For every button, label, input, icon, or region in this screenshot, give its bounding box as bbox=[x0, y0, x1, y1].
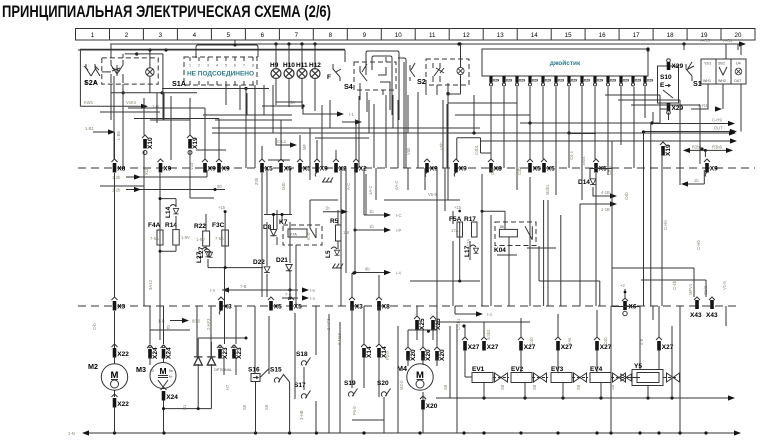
svg-text:S8: S8 bbox=[242, 404, 247, 410]
svg-text:9a: 9a bbox=[169, 369, 173, 373]
svg-text:1: 1 bbox=[189, 64, 191, 68]
lamp U4 (S2) bbox=[457, 67, 464, 74]
svg-text:S4: S4 bbox=[344, 82, 353, 91]
wire arrow y314 bbox=[455, 306, 493, 317]
svg-text:OPTIONAL: OPTIONAL bbox=[214, 368, 232, 372]
svg-text:WH2: WH2 bbox=[718, 79, 726, 83]
switch S2 bbox=[410, 59, 469, 86]
svg-text:X29: X29 bbox=[623, 79, 629, 83]
wire R5 top arrow bbox=[323, 206, 348, 215]
wire arrow 1-2b upper bbox=[112, 170, 207, 180]
svg-text:17: 17 bbox=[633, 32, 640, 39]
svg-text:R3b6: R3b6 bbox=[712, 144, 723, 149]
svg-text:X2: X2 bbox=[359, 166, 367, 173]
lower connector bus (dashed) y306 bbox=[78, 305, 738, 307]
switch S19 bbox=[344, 380, 358, 397]
connector X29 (S10 top) bbox=[667, 59, 684, 70]
resistor R22 bbox=[194, 223, 210, 246]
svg-text:7-5A: 7-5A bbox=[150, 236, 159, 241]
svg-text:C-H9: C-H9 bbox=[712, 118, 722, 123]
wire F5A junction bbox=[384, 192, 480, 283]
svg-text:I-4: I-4 bbox=[487, 312, 493, 317]
svg-text:2: 2 bbox=[198, 64, 200, 68]
svg-text:C4b1: C4b1 bbox=[474, 144, 479, 155]
svg-text:C4b: C4b bbox=[517, 167, 522, 175]
svg-text:X23: X23 bbox=[222, 347, 229, 359]
connector X2 bbox=[333, 159, 347, 173]
wire K04 route y281 bbox=[539, 281, 600, 306]
svg-text:7-17A: 7-17A bbox=[466, 239, 471, 250]
svg-text:7-B: 7-B bbox=[285, 292, 292, 297]
inductor L27 with diode bbox=[198, 246, 213, 258]
svg-text:S8: S8 bbox=[264, 404, 269, 410]
svg-text:MFV1: MFV1 bbox=[688, 283, 693, 295]
wire arrow y272.5 bbox=[354, 267, 402, 276]
svg-text:X29: X29 bbox=[519, 79, 525, 83]
svg-text:X3: X3 bbox=[117, 304, 125, 311]
connector X5 bbox=[268, 297, 282, 311]
svg-text:X22: X22 bbox=[117, 351, 129, 358]
svg-text:U4: U4 bbox=[736, 62, 741, 66]
wire S1 feeds bbox=[691, 44, 741, 112]
svg-text:X5: X5 bbox=[284, 166, 292, 173]
svg-text:1A6: 1A6 bbox=[567, 337, 572, 345]
svg-text:S2: S2 bbox=[417, 77, 426, 86]
svg-text:X9: X9 bbox=[163, 166, 171, 173]
wire mid bus y123 bbox=[520, 122, 660, 124]
wire mid bus y128 bbox=[212, 127, 480, 129]
connector X27 bbox=[555, 337, 573, 351]
svg-text:EV1: EV1 bbox=[472, 366, 485, 373]
wire top supply bus y44 bbox=[110, 41, 746, 46]
svg-text:Y2/1: Y2/1 bbox=[704, 62, 711, 66]
connector X27 bbox=[481, 337, 499, 351]
wire arrow y230 bbox=[354, 224, 402, 233]
svg-text:3-HB: 3-HB bbox=[299, 410, 304, 420]
svg-text:F4A: F4A bbox=[148, 222, 161, 229]
svg-text:C4b: C4b bbox=[529, 337, 534, 345]
svg-text:C4b: C4b bbox=[603, 337, 608, 345]
svg-text:B4/4: B4/4 bbox=[581, 156, 586, 165]
svg-text:C-Hb: C-Hb bbox=[696, 240, 701, 250]
svg-text:L14: L14 bbox=[165, 206, 172, 218]
svg-text:WH1: WH1 bbox=[703, 79, 711, 83]
connector X10 bbox=[142, 135, 154, 149]
svg-text:X24: X24 bbox=[166, 394, 178, 401]
svg-text:X3: X3 bbox=[355, 304, 363, 311]
svg-text:6: 6 bbox=[261, 32, 265, 39]
wire bottom rail y433 bbox=[68, 430, 741, 436]
motor M2 bbox=[88, 362, 128, 390]
wire mid bus y133 bbox=[212, 130, 736, 135]
connector X9 bbox=[453, 159, 467, 177]
connector X24 bbox=[161, 345, 173, 359]
connector X24 (M3 left) bbox=[149, 345, 152, 348]
svg-text:X5: X5 bbox=[547, 166, 555, 173]
svg-text:H1: H1 bbox=[182, 404, 187, 410]
connector X3 bbox=[112, 297, 126, 311]
svg-text:1b: 1b bbox=[369, 209, 374, 214]
wire arrow y146 bbox=[276, 138, 297, 148]
svg-text:X25: X25 bbox=[435, 318, 442, 330]
lamp H9 bbox=[270, 44, 281, 105]
svg-text:1b: 1b bbox=[694, 178, 699, 183]
inductor L17 with diode bbox=[464, 245, 479, 257]
valve EV2 bbox=[511, 366, 548, 383]
wire M3 bottom node bbox=[162, 400, 211, 433]
svg-text:4A-C: 4A-C bbox=[394, 180, 399, 190]
svg-text:7-5A: 7-5A bbox=[215, 236, 224, 241]
svg-text:S1A: S1A bbox=[172, 79, 186, 88]
fuse F4A bbox=[148, 222, 163, 245]
svg-text:S8: S8 bbox=[610, 384, 615, 390]
svg-text:+15: +15 bbox=[454, 205, 462, 210]
svg-text:A-R5: A-R5 bbox=[700, 38, 710, 43]
svg-text:OUT: OUT bbox=[734, 79, 742, 83]
svg-text:L27: L27 bbox=[198, 246, 205, 258]
svg-text:18: 18 bbox=[667, 32, 674, 39]
wire bundle verticals center-right bbox=[383, 62, 558, 433]
svg-text:I-4: I-4 bbox=[396, 271, 402, 276]
wire F4A/R14 loop bbox=[159, 173, 177, 253]
svg-text:L5: L5 bbox=[325, 250, 332, 258]
connector X8 bbox=[376, 297, 390, 311]
svg-text:C4b: C4b bbox=[490, 167, 495, 175]
svg-text:C-L1: C-L1 bbox=[277, 139, 287, 144]
wire arrow y114 bbox=[290, 100, 355, 117]
connector X9 bbox=[158, 159, 172, 173]
svg-text:15: 15 bbox=[565, 32, 572, 39]
svg-text:8/25: 8/25 bbox=[192, 319, 201, 324]
svg-text:A-B1: A-B1 bbox=[723, 38, 733, 43]
svg-text:K7A: K7A bbox=[290, 233, 297, 237]
svg-text:1A-C: 1A-C bbox=[368, 185, 373, 195]
connector row X29 (joystick pins) bbox=[489, 76, 653, 86]
svg-text:C-2b1: C-2b1 bbox=[456, 318, 461, 330]
lamp H12 bbox=[309, 44, 321, 111]
svg-text:I-4: I-4 bbox=[310, 296, 316, 301]
connector X8 bbox=[112, 159, 126, 173]
wire arrow right x723 y149 bbox=[683, 144, 733, 157]
svg-text:S1: S1 bbox=[693, 79, 702, 88]
wire bundle horizontals lower bbox=[150, 200, 706, 420]
diode D21 bbox=[276, 257, 292, 271]
svg-text:X9: X9 bbox=[222, 166, 230, 173]
wire id labels bbox=[92, 130, 727, 420]
svg-text:X3: X3 bbox=[224, 304, 232, 311]
wire arrow 1-B1 bbox=[85, 126, 115, 135]
svg-text:EV2: EV2 bbox=[511, 366, 524, 373]
wire K7 feed bbox=[264, 213, 292, 229]
svg-text:Y5: Y5 bbox=[634, 363, 642, 370]
connector X23 pair bbox=[219, 345, 236, 348]
svg-text:L-B5: L-B5 bbox=[116, 130, 121, 140]
diode D22 bbox=[253, 259, 270, 273]
switch S17 bbox=[294, 382, 311, 399]
svg-text:1: 1 bbox=[91, 32, 95, 39]
svg-text:KW1: KW1 bbox=[84, 100, 94, 105]
svg-text:4/4b2: 4/4b2 bbox=[486, 329, 491, 340]
wire arrow 1-H bbox=[80, 100, 158, 109]
valve EV3 bbox=[551, 366, 588, 383]
svg-text:M2b1: M2b1 bbox=[545, 184, 550, 195]
svg-text:S15: S15 bbox=[270, 367, 282, 374]
connector X22 bbox=[112, 394, 130, 408]
frame left outer box bbox=[80, 49, 345, 106]
diode D8 bbox=[263, 224, 277, 236]
svg-text:X8: X8 bbox=[117, 166, 125, 173]
connector X23 bbox=[231, 345, 243, 359]
connector X5 bbox=[278, 159, 292, 173]
svg-text:S16: S16 bbox=[248, 367, 260, 374]
svg-text:Tb: Tb bbox=[166, 324, 171, 330]
svg-text:R2b1: R2b1 bbox=[692, 144, 703, 149]
svg-text:S19: S19 bbox=[344, 380, 356, 387]
connector X27 bbox=[462, 337, 480, 351]
wire arrow y122 (S4 area) bbox=[342, 119, 362, 124]
svg-text:M: M bbox=[159, 366, 166, 376]
wire R22/F3C nodes bbox=[206, 210, 263, 269]
upper connector bus (dashed) y168 bbox=[78, 167, 755, 169]
connector X3 bbox=[218, 297, 232, 315]
connector X27 bbox=[656, 337, 674, 351]
wire bundle verticals center-left bbox=[205, 50, 379, 433]
svg-text:1b: 1b bbox=[325, 206, 330, 211]
connector X14 bbox=[361, 344, 373, 358]
svg-text:7: 7 bbox=[295, 32, 299, 39]
svg-text:A-C: A-C bbox=[346, 183, 351, 190]
wire arrow y298 bbox=[282, 292, 316, 301]
connector X6 bbox=[620, 283, 637, 316]
svg-text:Ch-5: Ch-5 bbox=[607, 165, 612, 175]
connector X23 bbox=[217, 345, 229, 359]
resistor R17 bbox=[464, 216, 477, 237]
motor M3 bbox=[136, 363, 176, 389]
wire rail x322 bbox=[437, 321, 530, 323]
svg-text:10: 10 bbox=[395, 32, 402, 39]
connector X20 bbox=[420, 396, 438, 410]
svg-text:H7: H7 bbox=[225, 384, 230, 390]
svg-text:X19: X19 bbox=[665, 144, 672, 156]
svg-text:V1b: V1b bbox=[189, 162, 194, 170]
resistor R5 bbox=[330, 218, 350, 241]
svg-text:6: 6 bbox=[234, 64, 236, 68]
connector X2 bbox=[353, 159, 367, 173]
svg-text:D22: D22 bbox=[253, 259, 265, 266]
svg-text:M2-b: M2-b bbox=[399, 380, 404, 390]
wire arrow 8-2b y320 bbox=[158, 318, 201, 324]
wire K04 coil feed bbox=[481, 210, 506, 230]
connector X20 bbox=[405, 347, 417, 361]
svg-text:1-8V: 1-8V bbox=[181, 235, 190, 240]
motor M4 bbox=[397, 330, 433, 390]
wire OUT y131.5 bbox=[645, 126, 737, 135]
svg-text:X29: X29 bbox=[635, 79, 641, 83]
svg-text:P2-b: P2-b bbox=[385, 350, 390, 360]
svg-text:8: 8 bbox=[329, 32, 333, 39]
svg-text:M2: M2 bbox=[88, 362, 98, 371]
svg-text:3: 3 bbox=[159, 32, 163, 39]
svg-text:C4b: C4b bbox=[624, 192, 629, 200]
svg-text:C4-1: C4-1 bbox=[569, 150, 574, 160]
svg-text:X19: X19 bbox=[192, 137, 199, 149]
wire rail y92.8 bbox=[111, 92, 197, 94]
svg-text:ПРИНЦИПИАЛЬНАЯ ЭЛЕКТРИЧЕСКАЯ С: ПРИНЦИПИАЛЬНАЯ ЭЛЕКТРИЧЕСКАЯ СХЕМА (2/6) bbox=[2, 3, 331, 21]
connector X24 bbox=[147, 345, 159, 359]
switch S4 bbox=[344, 51, 406, 168]
svg-text:1b: 1b bbox=[369, 224, 374, 229]
switch S20 bbox=[377, 380, 391, 397]
svg-text:4: 4 bbox=[216, 64, 218, 68]
svg-text:X5: X5 bbox=[533, 166, 541, 173]
svg-text:R5: R5 bbox=[330, 218, 339, 225]
svg-text:X29: X29 bbox=[493, 79, 499, 83]
svg-text:3A13: 3A13 bbox=[148, 280, 153, 290]
switch S1 bbox=[693, 59, 746, 88]
connector X9 bbox=[704, 159, 718, 177]
connector X29 (S10 bottom) bbox=[667, 103, 684, 114]
svg-text:X20: X20 bbox=[425, 349, 432, 361]
svg-text:X29: X29 bbox=[672, 63, 684, 70]
svg-text:C-4b: C-4b bbox=[672, 280, 677, 290]
svg-text:+2: +2 bbox=[620, 283, 625, 288]
switch F bbox=[327, 64, 341, 81]
wire top bus y50 bbox=[78, 49, 345, 51]
valve EV4 bbox=[590, 366, 627, 383]
relay K04 (dashed) bbox=[494, 222, 536, 254]
connector X5 bbox=[259, 159, 273, 173]
wire D14 arrows bbox=[580, 187, 617, 212]
relay box K1 (dashed) bbox=[102, 58, 158, 84]
svg-text:1-1B: 1-1B bbox=[601, 207, 610, 212]
svg-text:X43: X43 bbox=[706, 312, 718, 319]
svg-text:D14: D14 bbox=[578, 179, 590, 186]
label +15b bbox=[454, 205, 462, 212]
svg-text:X20: X20 bbox=[426, 403, 438, 410]
wire bundle horizontals upper bbox=[100, 89, 700, 199]
wire loop above S1A bbox=[196, 40, 258, 58]
svg-text:X5: X5 bbox=[294, 304, 302, 311]
svg-text:S2A: S2A bbox=[84, 78, 98, 87]
svg-text:+15: +15 bbox=[218, 205, 226, 210]
valve EV1 bbox=[472, 366, 509, 383]
svg-text:M3: M3 bbox=[136, 365, 146, 374]
svg-text:V1-b: V1-b bbox=[722, 280, 727, 290]
svg-text:X29: X29 bbox=[545, 79, 551, 83]
svg-text:VxK4: VxK4 bbox=[126, 100, 137, 105]
connector X20 bbox=[420, 347, 432, 361]
svg-text:2: 2 bbox=[125, 32, 129, 39]
connector X43 pair bbox=[688, 283, 718, 319]
svg-text:X20: X20 bbox=[439, 349, 446, 361]
svg-text:C-Hb: C-Hb bbox=[663, 220, 668, 230]
ground (near X2) bbox=[322, 178, 333, 183]
svg-text:H9: H9 bbox=[270, 62, 279, 69]
inductor L27 with diode bbox=[196, 248, 211, 264]
svg-text:8b: 8b bbox=[365, 267, 370, 272]
svg-text:X29: X29 bbox=[506, 79, 512, 83]
svg-text:8: 8 bbox=[252, 64, 254, 68]
svg-text:X29: X29 bbox=[597, 79, 603, 83]
diode D14 bbox=[578, 179, 596, 186]
svg-text:I-P: I-P bbox=[396, 228, 402, 233]
svg-text:S10: S10 bbox=[660, 74, 672, 81]
valve Y5 bbox=[621, 363, 680, 386]
switch lever left of S1 bbox=[686, 62, 694, 81]
connector X9 bbox=[314, 159, 328, 177]
svg-text:I-5: I-5 bbox=[310, 288, 316, 293]
svg-text:НЕ ПОДСОЕДИНЕНО: НЕ ПОДСОЕДИНЕНО bbox=[187, 71, 254, 78]
wire bundle verticals right bbox=[561, 44, 741, 433]
connector X3 bbox=[349, 297, 363, 311]
inductor L14 with diode bbox=[165, 205, 179, 219]
svg-text:X24: X24 bbox=[166, 347, 173, 359]
svg-text:20: 20 bbox=[735, 32, 742, 39]
svg-text:X14: X14 bbox=[366, 346, 373, 358]
wire arrow 1-2b lower bbox=[112, 184, 225, 193]
svg-text:1-2b: 1-2b bbox=[112, 175, 121, 180]
switch S2A bbox=[84, 64, 100, 87]
svg-text:X27: X27 bbox=[487, 344, 499, 351]
wire box K1 pins bbox=[111, 45, 163, 93]
lamp H11 bbox=[296, 44, 308, 109]
svg-text:I-1: I-1 bbox=[349, 112, 355, 117]
svg-text:7-B: 7-B bbox=[240, 284, 247, 289]
svg-text:X23: X23 bbox=[236, 347, 243, 359]
wire arrow x686 y185 bbox=[681, 170, 704, 187]
svg-text:X24: X24 bbox=[152, 347, 159, 359]
svg-text:50/2: 50/2 bbox=[718, 62, 725, 66]
label +15 bbox=[218, 205, 226, 210]
svg-text:17A: 17A bbox=[451, 228, 459, 233]
lamp HA bbox=[146, 68, 154, 76]
svg-text:16: 16 bbox=[599, 32, 606, 39]
svg-text:12: 12 bbox=[463, 32, 470, 39]
svg-text:10: 10 bbox=[150, 369, 154, 373]
wire bottom rail y398 bbox=[424, 395, 735, 401]
svg-text:X20: X20 bbox=[410, 349, 417, 361]
svg-text:50: 50 bbox=[217, 184, 222, 189]
connector X24 bbox=[161, 387, 179, 401]
lamp H10 bbox=[283, 44, 295, 107]
svg-text:E: E bbox=[660, 82, 665, 89]
switch S15 bbox=[270, 367, 290, 383]
svg-text:1-B1: 1-B1 bbox=[85, 126, 95, 131]
svg-text:4: 4 bbox=[193, 32, 197, 39]
svg-text:9: 9 bbox=[363, 32, 367, 39]
connector X8 bbox=[488, 159, 502, 173]
svg-text:4-1B: 4-1B bbox=[601, 190, 610, 195]
svg-text:X1b: X1b bbox=[144, 167, 149, 175]
svg-text:9+: 9+ bbox=[169, 375, 173, 379]
wire C-H9 y123.5 bbox=[653, 118, 735, 127]
fuse F5A bbox=[449, 216, 463, 237]
svg-text:3: 3 bbox=[207, 64, 209, 68]
diodes optional pair bbox=[194, 337, 247, 409]
connector X24 (M3 right) bbox=[162, 345, 165, 348]
svg-text:I-X: I-X bbox=[210, 288, 216, 293]
connector X27 bbox=[594, 337, 612, 351]
connector X9 bbox=[216, 159, 230, 173]
svg-text:X29: X29 bbox=[672, 105, 684, 112]
svg-text:I-C: I-C bbox=[396, 213, 402, 218]
wire bundle verticals left bbox=[111, 76, 197, 433]
resistor R14 bbox=[165, 222, 190, 245]
svg-text:R22: R22 bbox=[194, 223, 206, 230]
svg-text:V5-b: V5-b bbox=[428, 192, 438, 197]
S1A pins bbox=[189, 57, 254, 85]
svg-text:C-b: C-b bbox=[92, 323, 97, 330]
